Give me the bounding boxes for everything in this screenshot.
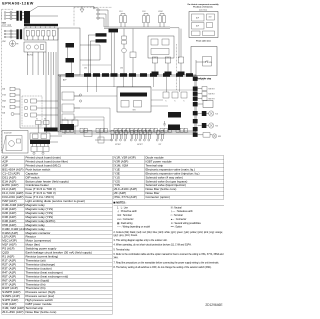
connector hatched block on X1M feed bbox=[16, 11, 22, 21]
wire group A2P to main PCB bbox=[28, 52, 54, 75]
svg-text:K11M: K11M bbox=[158, 11, 163, 13]
wire field connection with break bbox=[198, 78, 211, 81]
wire compressor power run bbox=[44, 52, 58, 132]
connectors X3A X4A under PCB bbox=[62, 118, 78, 134]
svg-text:X1M: X1M bbox=[2, 23, 6, 25]
wire compressor to PCB bbox=[50, 136, 62, 142]
fuse group F3U above bus bbox=[142, 11, 149, 27]
printed circuit board A1P (main) outline bbox=[58, 75, 196, 132]
svg-text:V1R: V1R bbox=[133, 110, 137, 112]
svg-text:X4A: X4A bbox=[2, 112, 5, 115]
thermistors R6T~R10T cluster bbox=[130, 130, 151, 146]
wire A1P interior horizontals bbox=[61, 65, 169, 108]
svg-text:Front side view: Front side view bbox=[196, 40, 211, 43]
connector on A1P top edge x=150 bbox=[150, 73, 157, 77]
A1P interior left components bbox=[59, 75, 117, 132]
wire mains feed diagonal bbox=[30, 7, 38, 12]
svg-text:R6T R7T: R6T R7T bbox=[137, 144, 143, 146]
connector on A1P top edge x=186 bbox=[186, 73, 193, 77]
noise filter Z1C (hatched block) bbox=[22, 11, 30, 24]
wire A1P interior verticals bbox=[88, 77, 180, 92]
title EPRA08-12EW bbox=[2, 1, 34, 5]
A1P interior right relays and earth bbox=[163, 92, 187, 130]
svg-text:V2: V2 bbox=[36, 119, 38, 121]
svg-text:R1T: R1T bbox=[159, 144, 162, 146]
svg-text:E: E bbox=[1, 18, 2, 20]
svg-text:Y1S: Y1S bbox=[215, 114, 218, 116]
svg-text:A1P: A1P bbox=[196, 16, 199, 19]
connector tap on bus bbox=[109, 29, 119, 75]
legend table right bbox=[114, 156, 225, 200]
connector on A1P top edge x=163 bbox=[163, 73, 170, 77]
svg-text:Y3S: Y3S bbox=[215, 126, 218, 128]
terminal strip X1M power supply terminals bbox=[1, 11, 16, 20]
svg-text:Position of elements: Position of elements bbox=[193, 6, 213, 9]
notes block bbox=[114, 201, 225, 269]
svg-text:K: K bbox=[166, 100, 167, 102]
wire mains feed mid bbox=[30, 15, 58, 17]
connector on A1P top edge x=93 bbox=[93, 73, 100, 77]
wire inset boundary (dash-dot) bbox=[176, 44, 178, 90]
inset box: component layout front bbox=[189, 12, 218, 38]
ground earth arrow at inlet bbox=[80, 9, 84, 12]
wire field-boundary inlet (dash-dot) bbox=[74, 6, 112, 8]
thermistor connectors X11A~X13A bbox=[198, 87, 215, 101]
capacitor / varistor chain bbox=[122, 29, 127, 75]
fuse group F1U above bus bbox=[119, 11, 126, 27]
label X1M power supply bbox=[2, 23, 12, 27]
option box with switches S1S S2S S3S bbox=[22, 96, 58, 126]
svg-text:K: K bbox=[175, 100, 176, 102]
svg-text:CN5: CN5 bbox=[120, 68, 123, 70]
wire bottom sensor bus bbox=[58, 131, 196, 144]
connector on A1P top edge x=120 bbox=[120, 73, 127, 77]
svg-text:R4T R5T: R4T R5T bbox=[209, 93, 215, 95]
svg-text:Detail X1M: Detail X1M bbox=[4, 131, 12, 134]
svg-text:F3U: F3U bbox=[142, 11, 146, 13]
svg-text:R3T R2T: R3T R2T bbox=[209, 88, 215, 90]
svg-text:N: N bbox=[1, 15, 2, 17]
svg-text:X1M: X1M bbox=[209, 17, 212, 19]
svg-text:(switch box): (switch box) bbox=[199, 8, 208, 11]
svg-text:F1U F2U: F1U F2U bbox=[27, 55, 33, 57]
wire field-boundary (dash-dot) bbox=[2, 9, 13, 151]
svg-text:X5A: X5A bbox=[2, 106, 5, 109]
circuit breaker Q1DI inlet bbox=[93, 8, 108, 27]
solenoid valve Y3S bbox=[198, 123, 218, 128]
svg-text:CN1: CN1 bbox=[84, 68, 87, 70]
noise filter Z2C Z3C blocks bbox=[88, 33, 106, 75]
pressure sensor S1NPH bbox=[198, 133, 221, 139]
solenoid valve Y1S bbox=[198, 111, 218, 116]
svg-text:M1F: M1F bbox=[218, 136, 221, 138]
label X2M bbox=[2, 41, 6, 43]
connector drop onto main PCB at x=181 bbox=[178, 29, 185, 75]
fuse group K11M above bus bbox=[158, 11, 165, 27]
wire to remote terminal bbox=[196, 60, 213, 75]
cable bundle into PCB A2P bbox=[24, 24, 58, 28]
reactor L1R board with connectors bbox=[58, 28, 100, 77]
svg-text:F1U: F1U bbox=[119, 11, 123, 13]
wire mains feed top run bbox=[38, 6, 94, 8]
document number bbox=[182, 303, 223, 307]
A1P inner outline and traces bbox=[59, 76, 196, 131]
terminal strip X2M signal terminals bbox=[4, 30, 16, 38]
svg-text:R2T R3T: R2T R3T bbox=[115, 144, 121, 146]
connector on A1P top edge x=140 bbox=[140, 73, 147, 77]
connectors on A1P right edge bbox=[193, 77, 198, 137]
svg-text:A1P: A1P bbox=[63, 79, 67, 82]
thermistor R1T pair bbox=[156, 130, 164, 146]
connector on A1P top edge x=129 bbox=[129, 73, 136, 77]
connector drop onto main PCB at x=155 bbox=[152, 57, 159, 75]
svg-text:PE: PE bbox=[16, 44, 18, 46]
svg-text:X6A: X6A bbox=[2, 88, 5, 91]
connector on A1P top edge x=84 bbox=[84, 73, 91, 77]
printed circuit board A4P (sub) bbox=[148, 36, 174, 58]
connector hatched block on X2M feed bbox=[16, 29, 22, 39]
svg-text:X85A: X85A bbox=[2, 100, 6, 103]
ground protective-earth symbol bbox=[10, 41, 19, 47]
connector drop onto main PCB at x=168 bbox=[165, 57, 172, 75]
inset heading text bbox=[187, 3, 219, 12]
svg-text:S1PH: S1PH bbox=[207, 79, 211, 81]
connector on A1P top edge x=110.5 bbox=[111, 73, 118, 77]
svg-text:Q1DI: Q1DI bbox=[93, 8, 97, 10]
connector on A1P top edge x=176 bbox=[176, 73, 183, 77]
wire top supply bus (double line) bbox=[104, 27, 179, 58]
connector on A1P top edge x=102 bbox=[102, 73, 109, 77]
legend table left bbox=[2, 156, 113, 315]
svg-text:R6T R7T: R6T R7T bbox=[209, 98, 215, 100]
svg-text:A2P: A2P bbox=[196, 24, 199, 27]
svg-text:On electric component assembly: On electric component assembly bbox=[187, 3, 219, 6]
thermistors R2T~R5T cluster bbox=[111, 130, 128, 146]
connector X21A empty bbox=[198, 101, 213, 108]
printed circuit board A2P (noise filter) with capacitors C1~C6 bbox=[24, 28, 58, 40]
svg-text:V3: V3 bbox=[44, 119, 46, 121]
power module V1R on A1P bbox=[117, 87, 151, 112]
compressor M1C terminal block bbox=[30, 119, 50, 155]
inset box: component layout back bbox=[191, 47, 217, 76]
option connectors X6A/X77A/X85A/X5A and wires bbox=[2, 87, 44, 128]
relay K1M K2M on A2P bbox=[24, 42, 46, 52]
svg-text:K: K bbox=[184, 100, 185, 102]
connector row on A1P bottom edge bbox=[62, 128, 188, 132]
svg-text:X77A: X77A bbox=[2, 94, 6, 97]
svg-text:L: L bbox=[1, 12, 2, 14]
relay contact K11M on drop wire bbox=[130, 29, 136, 75]
svg-text:X2M: X2M bbox=[2, 41, 6, 43]
inset detail terminal X1M bbox=[2, 131, 28, 154]
